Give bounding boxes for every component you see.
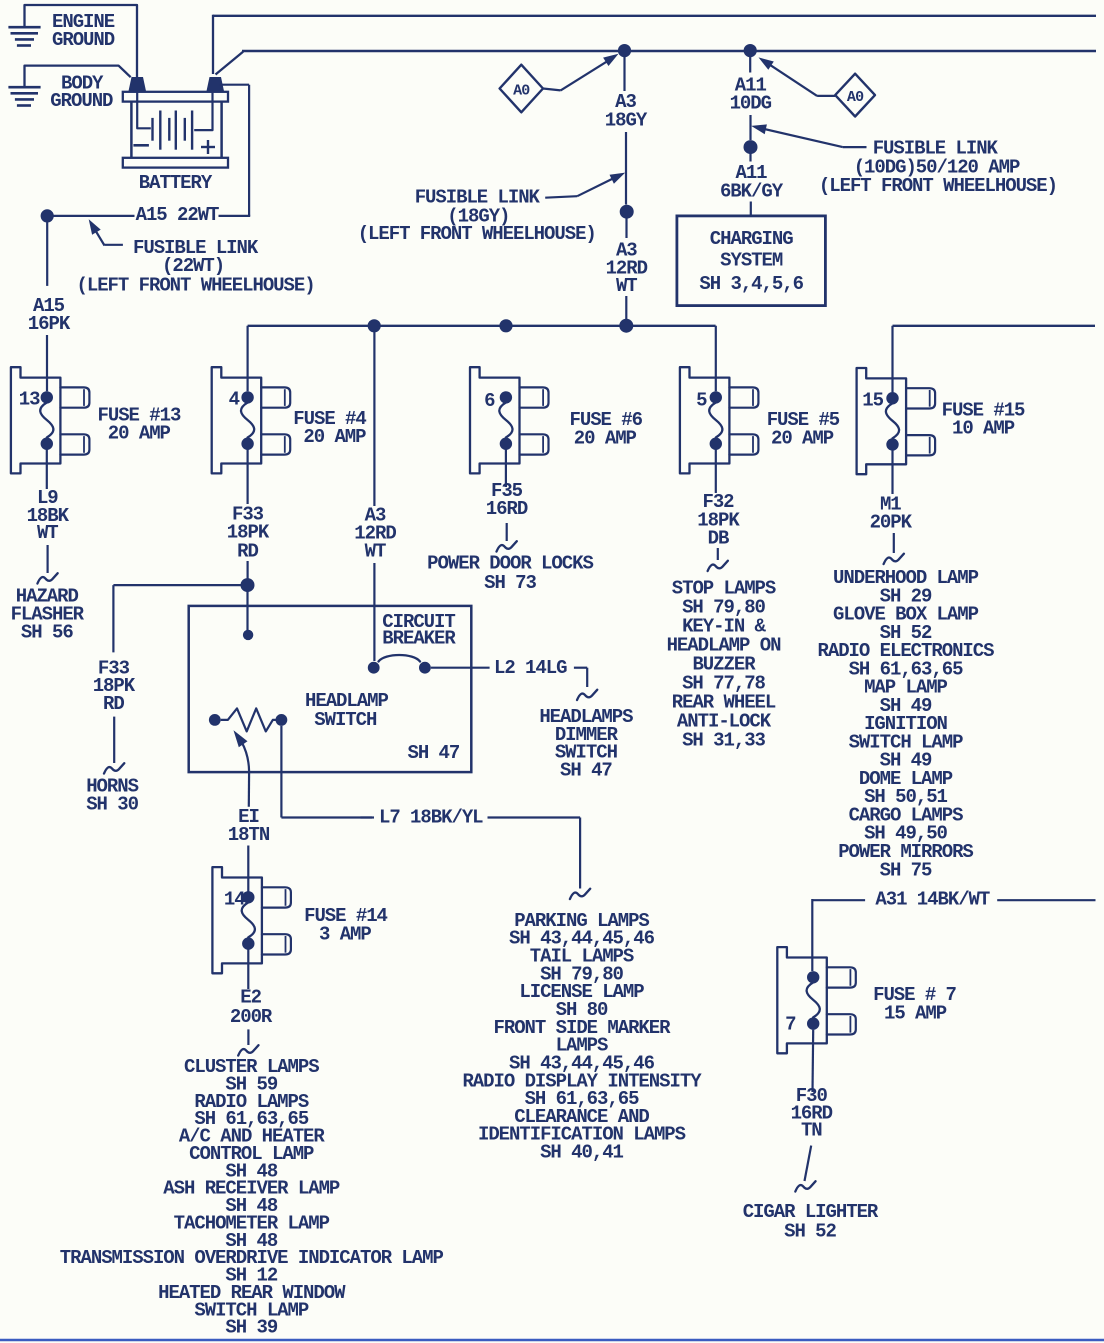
wire E1 down from switch [248, 772, 251, 807]
svg-text:7: 7 [785, 1014, 796, 1036]
svg-text:15 AMP: 15 AMP [884, 1002, 947, 1024]
label A31 14BK/WT [875, 889, 990, 911]
fuse F5 [680, 367, 840, 473]
wire body ground to battery negative [25, 66, 131, 86]
svg-text:SWITCH: SWITCH [314, 709, 377, 731]
label stop lamps destinations [667, 577, 782, 751]
label A11 6BK/GY [720, 162, 784, 202]
wire top feed bus [213, 15, 1096, 74]
label fusible link 10DG [819, 137, 1057, 197]
wire A11 [749, 55, 751, 140]
svg-text:10 AMP: 10 AMP [952, 418, 1015, 440]
wire F30 16RD TN [811, 1030, 814, 1092]
svg-text:WT: WT [37, 522, 58, 544]
label instrument lamps destinations [60, 1056, 444, 1339]
svg-text:BREAKER: BREAKER [382, 628, 456, 650]
fuse F15 [857, 368, 1025, 474]
label power door locks [427, 553, 593, 594]
wire E2 200R [247, 948, 249, 989]
svg-text:SYSTEM: SYSTEM [720, 250, 783, 272]
svg-text:16PK: 16PK [28, 313, 71, 335]
label A11 10DG [730, 74, 772, 114]
wire A3 12RD WT to circuit breaker [373, 330, 375, 661]
svg-text:SH 73: SH 73 [484, 572, 536, 594]
svg-text:SH 3,4,5,6: SH 3,4,5,6 [699, 273, 803, 295]
svg-text:SH 30: SH 30 [86, 793, 138, 815]
label L2 14LG [494, 657, 567, 679]
svg-text:L2 14LG: L2 14LG [494, 657, 567, 679]
fusible link 10DG callout arrow [751, 124, 866, 147]
label A15 16PK [28, 295, 71, 335]
svg-text:18TN: 18TN [228, 824, 270, 846]
label L7 18BK/YL [361, 807, 484, 829]
svg-text:SH 39: SH 39 [225, 1317, 277, 1339]
svg-text:(LEFT FRONT WHEELHOUSE): (LEFT FRONT WHEELHOUSE) [819, 175, 1057, 197]
wire L7 from switch [281, 726, 372, 818]
svg-text:A15 22WT: A15 22WT [136, 204, 219, 226]
junction wire end in box [243, 630, 253, 640]
wire L2 14LG [431, 667, 490, 669]
svg-text:RD: RD [237, 541, 258, 563]
fuse F4 [212, 367, 367, 473]
svg-text:14: 14 [224, 889, 245, 911]
svg-text:(LEFT FRONT WHEELHOUSE): (LEFT FRONT WHEELHOUSE) [77, 275, 315, 297]
wire engine ground to battery negative [25, 5, 138, 77]
label horns [86, 775, 138, 815]
label A3 18GY [605, 91, 648, 132]
wire distribution bus [248, 326, 716, 392]
wire M1 20PK [891, 450, 893, 494]
wire L7 to parking lamps [488, 818, 591, 900]
label A3 12RD WT upper [606, 240, 648, 298]
fuse F7 [777, 947, 956, 1053]
wire distribution bus right segment [893, 326, 1096, 392]
svg-text:10DG: 10DG [730, 93, 772, 115]
label F35 16RD [486, 480, 528, 520]
engine ground symbol [8, 11, 114, 51]
label F32 18PK DB [697, 491, 740, 550]
svg-text:16RD: 16RD [486, 498, 528, 520]
wire to power door locks hook [497, 523, 517, 552]
battery [123, 77, 228, 194]
label fusible link 22WT [77, 237, 315, 297]
wire to horns hook [104, 717, 124, 774]
svg-text:20 AMP: 20 AMP [108, 422, 171, 444]
wire A15 22WT from battery [54, 85, 251, 216]
charging system box [677, 216, 826, 306]
label EI 18TN [228, 806, 270, 846]
junction A3 fusible link [620, 205, 634, 219]
svg-text:20PK: 20PK [870, 512, 913, 534]
svg-text:WT: WT [365, 541, 386, 563]
label fusible link 18GY [358, 186, 596, 245]
wire F33 below fuse4 [247, 449, 249, 580]
label cigar lighter [743, 1201, 879, 1243]
svg-text:5: 5 [696, 390, 707, 412]
svg-text:GROUND: GROUND [50, 90, 113, 112]
wire A31 14BK/WT [812, 899, 1095, 971]
label A3 12RD WT lower [354, 505, 396, 563]
body ground symbol [8, 72, 113, 112]
fusible link 18GY callout arrow [545, 173, 625, 198]
svg-text:(22WT): (22WT) [162, 255, 224, 277]
label L9 18BK WT [27, 487, 70, 544]
svg-text:18GY: 18GY [605, 110, 648, 132]
junction bus3 at A3 down wire [619, 319, 633, 333]
svg-text:4: 4 [229, 389, 240, 411]
label A15 22WT [136, 204, 219, 226]
fuse F13 [11, 367, 181, 473]
arrow A0 to A3 junction [543, 54, 619, 91]
svg-text:RD: RD [103, 693, 124, 715]
svg-text:SH 75: SH 75 [880, 859, 932, 881]
label F33 18PK RD horns [93, 657, 136, 715]
svg-text:13: 13 [19, 389, 40, 411]
connector A0 right [835, 74, 875, 117]
svg-text:GROUND: GROUND [52, 29, 115, 51]
label F30 16RD TN [791, 1085, 833, 1142]
svg-text:TN: TN [801, 1120, 822, 1142]
svg-text:SH 31,33: SH 31,33 [682, 730, 765, 752]
svg-text:SH 47: SH 47 [560, 759, 612, 781]
svg-text:BATTERY: BATTERY [139, 172, 213, 194]
svg-text:200R: 200R [230, 1006, 273, 1028]
wire to cluster lamps hook [238, 1029, 258, 1055]
label E2 200R [230, 987, 273, 1028]
junction bus A11 [744, 44, 757, 57]
circuit breaker [368, 655, 431, 674]
wire to stop lamps hook [708, 548, 728, 571]
junction bus3 at fuse6 [499, 319, 512, 332]
label interior lamps destinations [818, 567, 995, 881]
wire E1 to fuse 14 [247, 846, 249, 892]
wire A3 18GY [625, 55, 627, 205]
svg-text:SH 52: SH 52 [784, 1221, 836, 1243]
svg-text:SH 47: SH 47 [408, 742, 460, 764]
svg-text:A0: A0 [513, 83, 530, 100]
wire to cigar lighter hook [795, 1146, 815, 1192]
svg-text:L7 18BK/YL: L7 18BK/YL [379, 807, 483, 829]
svg-text:20 AMP: 20 AMP [771, 428, 834, 450]
label SH 47 [408, 742, 460, 764]
wire to underhood lamp hook [884, 533, 904, 564]
wire A11 to charging system [749, 153, 751, 216]
svg-text:A0: A0 [847, 89, 864, 106]
wiper arrow [234, 730, 250, 771]
fuse F14 [212, 867, 387, 973]
label hazard flasher [11, 586, 85, 644]
svg-text:(LEFT FRONT WHEELHOUSE): (LEFT FRONT WHEELHOUSE) [358, 223, 596, 245]
wire A3 12RD WT to bus [625, 218, 627, 322]
svg-text:DB: DB [708, 528, 729, 550]
wire L9 18BK WT [46, 449, 48, 489]
svg-text:SH 56: SH 56 [21, 621, 73, 643]
wire L2 to dimmer switch hook [574, 668, 597, 700]
headlamp switch box [189, 606, 472, 772]
svg-text:15: 15 [862, 390, 883, 412]
fusible link 22WT callout arrow [89, 219, 123, 245]
label F33 18PK RD [227, 503, 270, 562]
label M1 20PK [870, 494, 913, 534]
wire F33 into headlamp switch box [246, 591, 248, 630]
junction F33 [241, 578, 255, 592]
wire A15 16PK down [46, 222, 48, 391]
junction bus3 at A3 wire from CB [368, 319, 381, 332]
arrow A0 to A11 junction [759, 57, 836, 96]
connector A0 left [500, 65, 543, 113]
resistor headlamp dimming rheostat [209, 708, 287, 731]
wire to hazard flasher [37, 545, 57, 584]
svg-text:6BK/GY: 6BK/GY [720, 181, 784, 203]
wire F33 branch to horns [113, 585, 241, 652]
svg-text:CHARGING: CHARGING [710, 228, 793, 250]
svg-text:6: 6 [484, 390, 495, 412]
svg-text:3 AMP: 3 AMP [319, 924, 371, 946]
wire second feed bus [216, 51, 1097, 75]
label headlamp switch [305, 690, 388, 731]
label headlamps dimmer switch [539, 706, 633, 781]
svg-text:SH 40,41: SH 40,41 [540, 1142, 623, 1164]
svg-text:A31 14BK/WT: A31 14BK/WT [875, 889, 990, 911]
wire F32 18PK DB [715, 449, 717, 493]
fuse F6 [470, 367, 643, 473]
page bottom rule [0, 1339, 1104, 1342]
svg-text:20 AMP: 20 AMP [574, 428, 637, 450]
wire F35 16RD [505, 449, 507, 487]
svg-text:20 AMP: 20 AMP [303, 426, 366, 448]
label exterior lamps destinations [462, 910, 702, 1164]
svg-text:WT: WT [616, 275, 637, 297]
junction bus A3 [618, 44, 631, 57]
junction A11 6BKGY [744, 140, 758, 154]
junction A15 [41, 209, 54, 222]
label circuit breaker [382, 611, 456, 650]
